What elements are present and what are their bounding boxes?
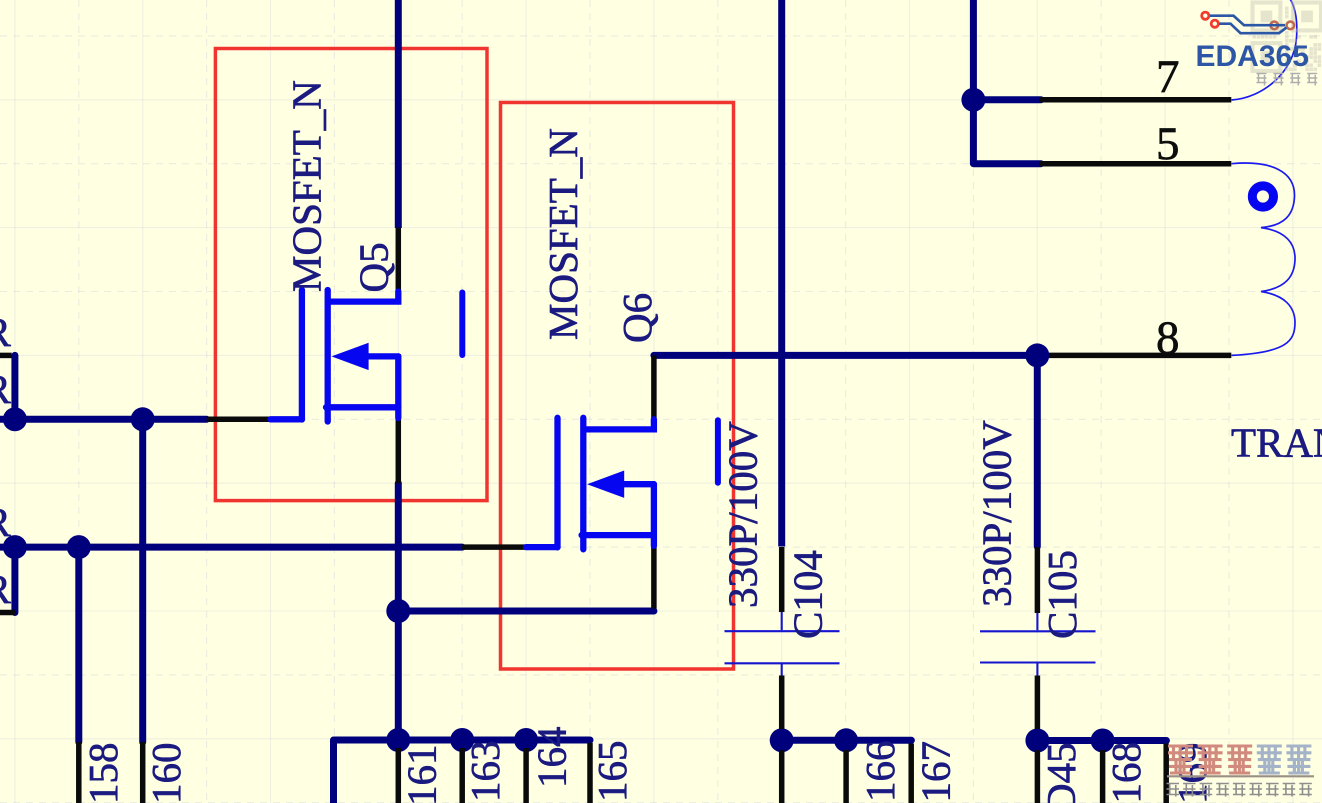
svg-text:5: 5: [1156, 118, 1180, 170]
node junction at (143,419): [131, 407, 155, 431]
pin 158 bottom: [76, 742, 82, 803]
pin Q5 drain: [396, 228, 402, 292]
node junction at (15,419): [3, 407, 27, 431]
node junction at (398,740): [386, 728, 410, 752]
svg-text:161: 161: [399, 745, 445, 803]
watermark underline: [1167, 775, 1314, 777]
pin 163 bottom: [459, 748, 465, 803]
node junction at (526,740): [514, 728, 538, 752]
svg-text:7: 7: [1156, 51, 1180, 103]
transistor Q6 (MOSFET_N): [526, 418, 654, 550]
pin 168 bottom: [1100, 750, 1106, 803]
wire W2 vertical to C104: [778, 0, 785, 547]
svg-text:Q5: Q5: [351, 242, 397, 292]
wire net at y=355 from Q6 drain to pin 8: [654, 352, 1044, 359]
svg-text:330P/100V: 330P/100V: [973, 420, 1019, 607]
svg-text:TRANS: TRANS: [1231, 419, 1322, 465]
EDA365 QR code watermark: [1253, 3, 1322, 72]
transformer winding arc above pin 7: [1232, 0, 1297, 100]
pin below C104 junction: [779, 750, 785, 803]
capacitor C104 symbol: [725, 612, 840, 676]
node junction at (1037,740): [1025, 729, 1049, 753]
pin Q6 source: [651, 546, 657, 609]
wire box1 left drop: [330, 740, 337, 803]
wire from junction down to C105: [1034, 355, 1041, 546]
svg-text:R: R: [0, 366, 12, 412]
wire gate net of Q5 at y=419: [0, 416, 207, 423]
EDA365 logo blue traces: [1210, 16, 1287, 34]
pin of transformer 7: [1040, 97, 1232, 103]
pin of transformer 8: [1049, 353, 1231, 359]
transistor Q5 (MOSFET_N): [271, 290, 399, 422]
transformer winding loops between pins 5 and 8: [1232, 163, 1296, 355]
pin 167 bottom: [908, 744, 914, 803]
node junction at (462,740): [450, 728, 474, 752]
svg-text:R: R: [0, 499, 12, 545]
wire W3 vertical to pins 7/5: [970, 0, 977, 164]
watermark line1: red/gray CJK brand text (pseudo-glyphs): [1168, 746, 1311, 773]
pin 165 bottom: [587, 743, 593, 803]
svg-text:168: 168: [1103, 742, 1149, 803]
pin 160 bottom: [140, 742, 146, 803]
pin Q5 source: [396, 418, 402, 484]
wire W1 vertical to Q5 drain: [395, 0, 402, 228]
capacitor C104 top lead pin: [779, 547, 785, 612]
svg-text:166: 166: [857, 741, 903, 803]
wire branch to pin 5: [973, 160, 1041, 167]
node junction at (846,740): [834, 728, 858, 752]
WeChat contact text (CJK pseudo-glyphs): [1257, 74, 1318, 86]
svg-text:160: 160: [143, 743, 189, 803]
svg-text:8: 8: [1156, 312, 1180, 364]
svg-text:330P/100V: 330P/100V: [719, 421, 765, 608]
svg-text:Q6: Q6: [614, 293, 660, 343]
wire stub down to R pin at left edge: [11, 547, 18, 612]
svg-text:R: R: [0, 566, 12, 612]
pin 164 bottom: [523, 748, 529, 803]
wire vertical x=79 down to pin 158: [75, 547, 82, 742]
svg-text:R: R: [0, 309, 12, 355]
wire Q5 source down: [395, 483, 402, 611]
svg-text:C105: C105: [1039, 550, 1085, 639]
wire branch to pin 7: [973, 96, 1041, 103]
watermark line2: gray CJK tagline (pseudo-glyphs): [1167, 784, 1312, 797]
node junction at (15,547): [3, 535, 27, 559]
capacitor C104 bottom lead pin: [779, 676, 785, 730]
pin 166 bottom: [843, 750, 849, 803]
pin of resistor R at (0,612): [0, 610, 15, 616]
wire stub from R pin down to gate net: [11, 355, 18, 419]
node junction at (79,547): [67, 535, 91, 559]
pin of transformer 5: [1040, 161, 1232, 167]
svg-text:158: 158: [80, 743, 126, 803]
pin Q5 gate: [207, 417, 271, 423]
svg-text:MOSFET_N: MOSFET_N: [540, 128, 586, 340]
EDA365 logo red via rings: [1202, 12, 1294, 29]
node junction at (782,740): [770, 728, 794, 752]
transformer polarity dot: [1252, 186, 1273, 207]
wire group1 header under C104: [782, 737, 912, 744]
pin of resistor R at (0,355): [0, 353, 12, 359]
component selection box for MOSFET Q5: [215, 49, 487, 501]
svg-text:D45: D45: [1038, 742, 1084, 803]
node junction at (398,611): [386, 599, 410, 623]
wire source tie Q5-Q6 at y=611: [398, 608, 654, 615]
blue bar fragment right of Q6: [715, 420, 721, 483]
pin 161 bottom: [396, 748, 402, 803]
capacitor C105 symbol: [980, 613, 1096, 676]
svg-text:EDA365: EDA365: [1196, 40, 1309, 73]
svg-text:163: 163: [462, 741, 508, 803]
pin Q6 drain: [651, 355, 657, 419]
svg-text:MOSFET_N: MOSFET_N: [284, 80, 330, 292]
blue bar fragment right of Q5: [459, 293, 465, 356]
node junction at (1103,740): [1091, 729, 1115, 753]
wire gate net of Q6 at y=547: [0, 544, 462, 551]
svg-text:164: 164: [529, 727, 575, 789]
wire vertical x=143 down to pin 160: [139, 419, 146, 742]
capacitor C105 top lead pin: [1035, 547, 1041, 613]
pin Q6 gate: [462, 544, 526, 550]
svg-text:165: 165: [589, 741, 635, 803]
pin D45 bottom: [1035, 750, 1041, 803]
wire group2 header under C105: [1037, 737, 1166, 744]
capacitor C105 bottom lead pin: [1035, 676, 1041, 730]
wire vertical x=398 down to bottom header: [395, 611, 402, 740]
component selection box for MOSFET Q6: [501, 103, 734, 670]
svg-text:167: 167: [913, 741, 959, 803]
node junction at (1037,355): [1025, 343, 1049, 367]
wire bottom header box1: [334, 737, 591, 744]
pin 169 bottom: [1163, 744, 1169, 803]
node junction at (973,100): [961, 88, 985, 112]
svg-text:C104: C104: [785, 550, 831, 639]
